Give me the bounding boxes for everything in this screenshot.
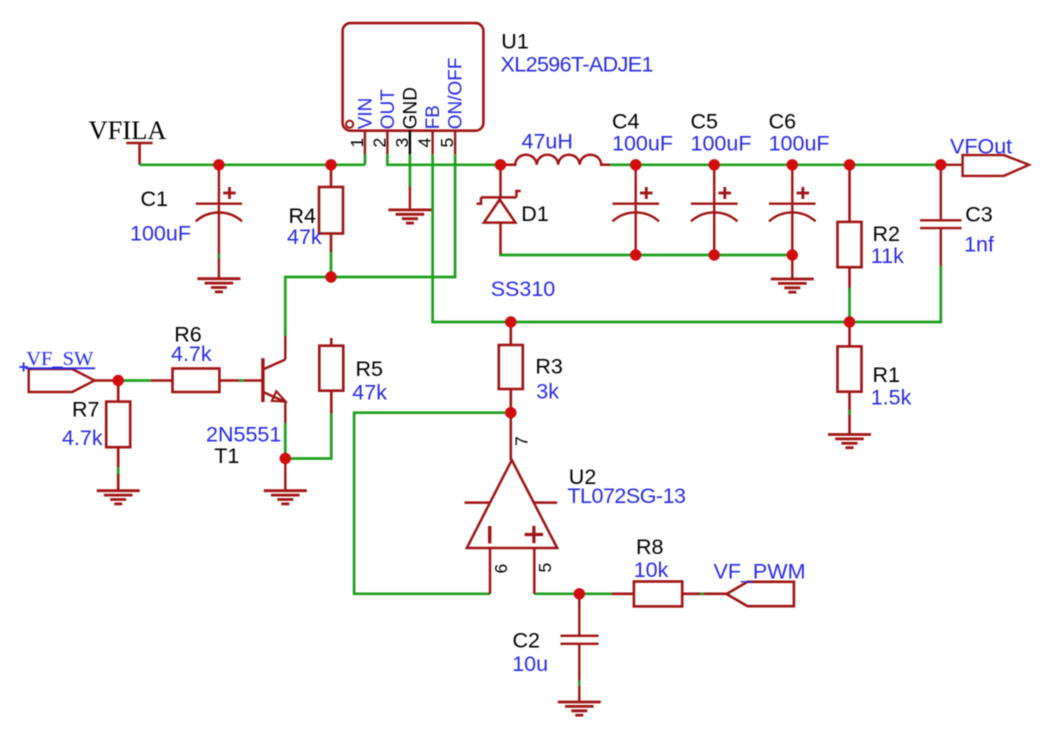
capacitor C2 (560, 594, 598, 702)
svg-text:T1: T1 (214, 444, 239, 468)
svg-text:3k: 3k (536, 380, 559, 404)
svg-text:6: 6 (491, 564, 511, 574)
wire R2 bottom (848, 288, 851, 322)
wire speck C2 bottom (578, 680, 580, 686)
svg-text:R5: R5 (356, 357, 384, 381)
port VF_PWM (727, 582, 794, 606)
svg-text:R2: R2 (873, 222, 900, 246)
wire VIN rail (140, 163, 365, 166)
junction C5 top (709, 159, 720, 170)
svg-text:C1: C1 (141, 187, 168, 211)
svg-text:D1: D1 (521, 202, 548, 226)
wire speck R7 bottom (117, 467, 120, 474)
svg-text:GND: GND (401, 87, 422, 129)
junction C4 top (630, 159, 641, 170)
junction C1 top (213, 159, 224, 170)
capacitor C4 (612, 165, 659, 255)
junction R2 top (844, 159, 855, 170)
svg-text:VFILA: VFILA (89, 115, 167, 145)
wire speck R8 right (700, 593, 704, 596)
wire R4 bottom (330, 252, 333, 277)
svg-text:OUT: OUT (378, 89, 399, 130)
ground at C1 (197, 279, 240, 292)
junction D1 top (495, 159, 506, 170)
wire emitter to R5 (285, 414, 331, 459)
svg-text:U1: U1 (501, 30, 528, 54)
op-amp U2 (465, 413, 558, 594)
ground at C2 (558, 702, 601, 715)
svg-text:TL072SG-13: TL072SG-13 (567, 484, 686, 508)
resistor R7 (106, 381, 130, 491)
svg-text:11k: 11k (871, 244, 904, 268)
junction VFOut (935, 159, 946, 170)
U1 pin 4 stub (431, 131, 433, 154)
ground at R7 (97, 491, 140, 504)
svg-text:XL2596T-ADJE1: XL2596T-ADJE1 (501, 53, 653, 77)
junction C2 top (574, 588, 585, 599)
diode D1 (schottky) (477, 165, 521, 254)
junction C5 bottom (709, 249, 720, 260)
wire inductor to VFOut rail (610, 163, 941, 166)
svg-text:C3: C3 (965, 203, 993, 227)
resistor R2 (838, 165, 862, 288)
port VF_SW (29, 369, 95, 392)
svg-text:2: 2 (370, 138, 390, 148)
wire pin1 drop (364, 154, 367, 165)
junction C4 bottom (630, 249, 641, 260)
svg-text:C4: C4 (612, 110, 640, 134)
transistor T1 (NPN 2N5551) (263, 336, 286, 423)
svg-text:FB: FB (423, 105, 444, 129)
svg-text:R7: R7 (72, 398, 99, 422)
ground at R1 (828, 435, 871, 448)
svg-text:ON/OFF: ON/OFF (446, 58, 467, 130)
junction VF_SW (113, 375, 124, 386)
U1 pin 1 stub (364, 131, 366, 154)
svg-text:VF_PWM: VF_PWM (714, 560, 806, 584)
U1 pin1 marker circle (346, 121, 353, 128)
wire ON/OFF net (285, 154, 455, 336)
svg-text:47k: 47k (287, 225, 322, 249)
svg-text:47uH: 47uH (522, 130, 573, 154)
svg-text:5: 5 (437, 138, 457, 148)
U1 pin 5 stub (454, 131, 456, 154)
svg-text:VF_SW: VF_SW (26, 348, 94, 370)
svg-text:100uF: 100uF (130, 222, 191, 246)
svg-text:100uF: 100uF (612, 132, 673, 156)
svg-text:C5: C5 (691, 110, 719, 134)
resistor R6 (151, 369, 263, 393)
wire pin5 to R8 (534, 592, 612, 595)
svg-text:10k: 10k (634, 558, 669, 582)
wire VF_SW to R6 (118, 379, 151, 382)
wire speck C1 bottom (218, 254, 220, 258)
svg-text:100uF: 100uF (691, 132, 752, 156)
resistor R3 (499, 322, 523, 413)
svg-text:1.5k: 1.5k (871, 386, 912, 410)
T1 emitter stem to ground (284, 459, 286, 491)
resistor R1 (838, 322, 862, 435)
resistor R4 (319, 165, 343, 252)
net flag tick VFILA (126, 143, 152, 165)
junction R3 bottom (505, 407, 516, 418)
svg-text:100uF: 100uF (769, 132, 830, 156)
wire op-amp feedback loop (354, 413, 511, 594)
svg-text:5: 5 (535, 563, 555, 573)
svg-text:R1: R1 (873, 363, 900, 387)
junction C6 bottom (787, 249, 798, 260)
junction T1 emitter (280, 453, 291, 464)
wire speck R6 right (239, 379, 244, 382)
svg-text:4.7k: 4.7k (171, 342, 212, 366)
svg-text:C6: C6 (769, 110, 797, 134)
resistor R8 (612, 582, 727, 607)
junction R3 top / FB rail (505, 316, 516, 327)
port VFOut (941, 155, 1029, 176)
wire diode ground rail (501, 252, 793, 255)
wire FB net (433, 154, 941, 322)
svg-text:4.7k: 4.7k (62, 426, 103, 450)
junction C6 top (787, 159, 798, 170)
svg-text:C2: C2 (513, 629, 540, 653)
U1 pin 3 stub (black) (409, 131, 411, 154)
svg-text:R8: R8 (636, 535, 664, 559)
wire GND pin drop (409, 154, 412, 186)
junction R1 top / FB rail (844, 316, 855, 327)
ground at U1 GND pin (409, 187, 411, 210)
capacitor C1 (196, 165, 242, 279)
wire speck R1 bottom (848, 410, 851, 415)
U1 pin 2 stub (386, 131, 388, 154)
svg-text:VIN: VIN (356, 98, 377, 130)
svg-text:7: 7 (512, 436, 532, 446)
capacitor C5 (691, 165, 738, 255)
svg-text:4: 4 (415, 138, 435, 148)
svg-text:10u: 10u (512, 652, 548, 676)
capacitor C3 (920, 165, 962, 266)
VF_SW underline (26, 367, 96, 369)
svg-text:1: 1 (347, 138, 367, 148)
VF_SW lead (95, 379, 119, 381)
svg-text:SS310: SS310 (491, 277, 556, 301)
IC U1 body (343, 23, 484, 131)
wire OUT rail (387, 154, 506, 165)
svg-text:47k: 47k (352, 381, 387, 405)
junction R4 top (325, 159, 336, 170)
svg-text:1nf: 1nf (964, 233, 994, 257)
svg-text:VFOut: VFOut (950, 135, 1012, 159)
svg-text:R3: R3 (535, 355, 563, 379)
junction R4 bottom / ON-OFF (325, 271, 336, 282)
VF_SW anchor cross (19, 363, 28, 372)
ground at T1 (264, 491, 307, 504)
svg-text:2N5551: 2N5551 (206, 423, 281, 447)
svg-text:3: 3 (392, 138, 412, 148)
inductor 47uH (506, 155, 610, 165)
capacitor C6 (769, 165, 816, 255)
resistor R5 (319, 338, 343, 414)
ground at C6 (791, 255, 793, 279)
